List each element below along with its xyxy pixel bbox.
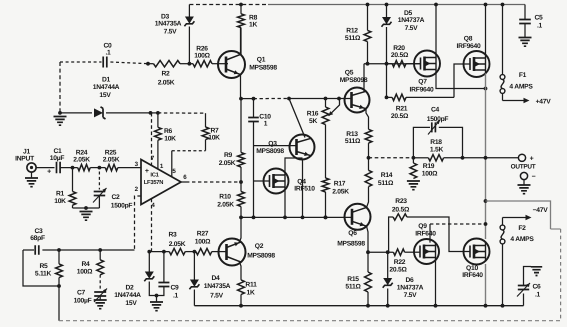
svg-text:R25: R25 [105,150,117,157]
wire Q1 emitter to Q3 collector [241,98,254,100]
arrow +47V supply [502,93,504,100]
resistor R10 [240,182,242,192]
resistor R24 [60,167,78,169]
svg-text:511Ω: 511Ω [345,283,361,290]
wire +V top rail [189,4,268,6]
svg-text:IC1: IC1 [150,171,159,178]
svg-text:R1: R1 [56,190,65,197]
svg-text:R21: R21 [396,106,408,113]
svg-text:1500pF: 1500pF [111,202,133,209]
resistor R4 [99,250,101,260]
svg-text:R2: R2 [161,71,170,78]
fuse F1 [502,5,504,75]
svg-text:20.5Ω: 20.5Ω [392,206,410,213]
wire D5 to R21 [386,64,388,98]
svg-text:C4: C4 [431,107,440,114]
svg-text:100Ω: 100Ω [422,170,438,177]
svg-text:Q10: Q10 [466,265,478,272]
resistor R25 [90,167,105,169]
svg-text:D2: D2 [125,284,134,291]
capacitor C6 [523,294,525,306]
resistor R7 [202,127,209,140]
wire Q9 source [435,261,437,306]
svg-text:Q1: Q1 [257,57,266,64]
resistor R5 [58,250,60,264]
resistor R12 [367,5,369,31]
svg-text:R24: R24 [76,150,88,157]
wire C3 bypass loop [23,250,59,286]
resistor R14 [368,158,370,171]
svg-text:C1: C1 [53,148,62,155]
svg-text:C0: C0 [103,43,112,50]
ground D2 C9 [155,294,159,298]
wire pin2 feedback riser [135,196,142,250]
arrow -47V supply [503,217,528,219]
capacitor C4 [413,127,430,157]
svg-text:R5: R5 [39,263,48,270]
resistor R13 [365,129,372,143]
resistor R18 [428,155,443,161]
capacitor C9 [163,252,165,283]
svg-text:511Ω: 511Ω [378,180,394,187]
svg-text:2.05K: 2.05K [73,157,90,164]
svg-text:D6: D6 [405,277,414,284]
resistor R8 [240,5,242,14]
wire Q7 drain top [435,5,437,55]
transistor Q6 [345,204,371,230]
svg-text:7.5V: 7.5V [404,292,418,299]
resistor R21 [392,94,406,100]
svg-text:511Ω: 511Ω [345,138,361,145]
svg-text:C5: C5 [534,14,543,21]
svg-text:R13: R13 [346,131,358,138]
wire pin7 to +15V [151,113,153,165]
wire R1 C2 common / ground [73,207,100,209]
svg-text:MPS8098: MPS8098 [247,252,275,259]
wire Q2 collector / resistor R11 [239,261,241,280]
resistor R26 [180,63,193,65]
wire Q4 source [284,190,286,218]
svg-text:OUTPUT: OUTPUT [511,164,536,171]
wire negative supply rail [194,305,523,307]
svg-text:7.5V: 7.5V [210,293,224,300]
svg-text:4 AMPS: 4 AMPS [510,236,534,243]
svg-text:R22: R22 [394,259,406,266]
node top rail junctions [239,3,243,7]
svg-text:−: − [532,174,536,181]
svg-text:7.5V: 7.5V [164,29,178,36]
svg-text:C6: C6 [532,284,541,291]
svg-text:R23: R23 [395,198,407,205]
svg-text:2.05K: 2.05K [332,188,349,195]
svg-text:1K: 1K [249,22,257,29]
transistor Q3 [290,135,315,160]
capacitor C10 [253,99,255,118]
svg-text:R14: R14 [381,172,393,179]
svg-text:1N4735A: 1N4735A [204,283,231,290]
svg-text:C10: C10 [259,113,271,120]
capacitor C2 [98,172,100,190]
svg-text:15V: 15V [125,300,137,307]
zener D2 [148,252,150,272]
svg-text:10K: 10K [54,198,66,205]
svg-text:C7: C7 [77,289,86,296]
wire drain rail to bus [430,223,486,225]
svg-text:R17: R17 [334,180,346,187]
resistor R15 [367,252,369,272]
wire Q5 collector [363,64,365,92]
wire R7 to pin5 [205,140,207,151]
wire Q6 base rail [241,216,352,218]
svg-text:+47V: +47V [536,99,552,106]
svg-text:F2: F2 [518,225,526,232]
svg-text:.1: .1 [535,292,541,299]
svg-text:Q7: Q7 [418,79,427,86]
svg-text:R26: R26 [196,46,208,53]
svg-text:5K: 5K [309,118,317,125]
svg-text:MPS8598: MPS8598 [337,240,365,247]
svg-text:Q3: Q3 [268,141,277,148]
wire Q9 drain [429,224,431,243]
svg-text:R9: R9 [224,152,233,159]
wire output bus vertical [485,73,487,239]
svg-text:LF357N: LF357N [144,179,164,186]
wire R23 to Q10 gate [407,217,470,252]
svg-text:D5: D5 [404,10,413,17]
svg-text:Q6: Q6 [348,230,357,237]
svg-text:MPS8098: MPS8098 [256,148,284,155]
svg-text:1.5K: 1.5K [430,147,444,154]
wire Q7 source to output bus [436,73,486,89]
svg-text:R12: R12 [346,28,358,35]
svg-text:1N4744A: 1N4744A [93,84,120,91]
wire Q4 drain [285,158,303,173]
svg-text:R8: R8 [249,15,258,22]
ground input jack [31,172,33,177]
wire pin4 to -15V node [151,199,153,252]
wire R21 to Q8 gate [454,64,470,97]
svg-text:10K: 10K [164,136,176,143]
zener D3 [188,5,190,17]
svg-text:1K: 1K [246,290,254,297]
svg-text:IRF9640: IRF9640 [410,87,434,94]
transistor Q5 [345,88,370,113]
mosfet Q7 IRF9640 [414,51,440,77]
op-amp IC1 LF357N [141,160,181,205]
svg-text:C3: C3 [34,228,43,235]
svg-text:1N4737A: 1N4737A [397,285,424,292]
ground under D1 node [54,117,67,126]
resistor R9 [240,99,242,153]
svg-text:+: + [145,168,149,175]
svg-text:2.05K: 2.05K [103,157,120,164]
svg-text:1N4735A: 1N4735A [155,21,182,28]
svg-text:R3: R3 [168,231,177,238]
svg-text:J1: J1 [23,149,30,156]
svg-text:+: + [47,169,51,176]
svg-text:Q4: Q4 [297,179,306,186]
wire feedback bottom rail [59,320,561,322]
mosfet Q4 IRF510 [264,169,289,194]
resistor R23 [389,217,394,252]
svg-text:.1: .1 [173,292,179,299]
wire output rail [369,157,414,159]
connector J1 input [27,163,36,172]
resistor R3 [169,248,185,254]
svg-text:2.05K: 2.05K [169,241,186,248]
svg-text:R19: R19 [423,163,435,170]
resistor R2 [148,63,154,65]
svg-text:F1: F1 [519,72,527,79]
svg-text:100Ω: 100Ω [194,53,210,60]
svg-text:INPUT: INPUT [15,156,35,163]
svg-text:Q2: Q2 [255,243,264,250]
mosfet Q9 IRF640 [414,239,439,264]
svg-text:2.05K: 2.05K [219,160,236,167]
svg-text:R4: R4 [81,261,90,268]
svg-text:.1: .1 [105,50,111,57]
capacitor C7 [99,275,101,290]
svg-text:68pF: 68pF [30,235,45,242]
resistor R1 [72,168,74,192]
svg-text:100Ω: 100Ω [77,269,93,276]
wire Q3 emitter [302,159,304,218]
zener D5 [386,5,388,18]
wire Q2 emitter to rail [239,217,241,243]
capacitor C5 [524,5,526,20]
svg-text:−47V: −47V [533,207,549,214]
svg-text:2.05K: 2.05K [217,202,234,209]
svg-text:R27: R27 [197,230,209,237]
wire Q5 emitter [366,109,369,130]
wire Q6 emitter [367,226,369,252]
capacitor C0 [60,61,102,63]
resistor R20 [392,61,406,67]
wire Q3 collector diagonal [289,99,305,138]
svg-text:C2: C2 [111,194,120,201]
svg-text:D1: D1 [102,77,111,84]
wire Q6 collector [367,187,369,208]
svg-text:15V: 15V [99,92,111,99]
svg-text:20.5Ω: 20.5Ω [389,266,407,273]
svg-text:1N4737A: 1N4737A [398,17,425,24]
svg-text:IRF510: IRF510 [294,186,315,193]
svg-text:C9: C9 [170,284,179,291]
resistor R22 [393,249,404,255]
fuse F2 [502,218,504,226]
svg-text:D4: D4 [211,275,220,282]
svg-text:511Ω: 511Ω [345,35,361,42]
svg-text:IRF640: IRF640 [415,230,436,237]
transistor Q2 [212,251,227,253]
wire bias rail mid [289,98,352,100]
svg-text:Q5: Q5 [345,70,354,77]
svg-text:20.5Ω: 20.5Ω [391,52,409,59]
svg-text:R20: R20 [393,45,405,52]
svg-text:R16: R16 [307,110,319,117]
svg-text:1: 1 [264,121,268,128]
svg-text:R11: R11 [245,282,257,289]
wire +15V rail to R6 R7 [152,112,158,114]
zener D4 [193,252,195,280]
terminal output+ [518,154,525,161]
wire Q3 base [254,145,297,147]
svg-text:5.11K: 5.11K [35,270,52,277]
wire output to feedback right [486,201,551,229]
svg-text:7.5V: 7.5V [405,25,419,32]
wire R6 to pin1 [157,140,159,169]
resistor R27 [185,251,196,253]
svg-text:.1: .1 [537,23,543,30]
svg-text:Q8: Q8 [464,36,473,43]
svg-text:Q9: Q9 [418,223,427,230]
svg-text:IRF9640: IRF9640 [457,43,481,50]
wire Q8 drain top [485,5,487,55]
svg-text:+: + [530,156,534,163]
svg-text:R15: R15 [347,276,359,283]
resistor R19 [410,163,417,179]
svg-text:R10: R10 [219,194,231,201]
svg-text:100µF: 100µF [74,297,92,304]
terminal output- [520,172,527,179]
wire to op-amp pin3 [118,167,141,169]
svg-text:10K: 10K [208,135,220,142]
svg-text:IRF640: IRF640 [462,272,483,279]
svg-text:2.05K: 2.05K [158,80,175,87]
svg-text:MPS8598: MPS8598 [249,65,277,72]
capacitor C1 [36,167,54,169]
svg-text:D3: D3 [161,14,170,21]
svg-text:1N4744A: 1N4744A [114,292,141,299]
zener D6 [387,252,389,278]
wire R5 to feedback rail [58,286,60,321]
wire op-amp output [181,181,186,183]
svg-text:R18: R18 [430,139,442,146]
svg-text:R7: R7 [210,128,219,135]
svg-text:100Ω: 100Ω [195,238,211,245]
wire op-amp V- node [149,251,169,253]
wire upper drive rail [364,63,421,65]
svg-text:20.5Ω: 20.5Ω [391,113,409,120]
wire driver node [368,251,393,253]
resistor R17 [325,125,327,178]
transistor Q1 [212,63,228,65]
potentiometer R16 [322,107,329,125]
svg-text:R6: R6 [164,128,173,135]
resistor R6 [155,127,162,140]
mosfet Q8 IRF9640 [464,51,490,77]
mosfet Q10 IRF640 [464,239,490,265]
svg-text:10µF: 10µF [50,155,65,162]
wire C0 ground branch [59,62,61,113]
svg-text:1500pF: 1500pF [427,116,449,123]
svg-text:4 AMPS: 4 AMPS [509,84,533,91]
wire Q4 gate [254,180,270,182]
